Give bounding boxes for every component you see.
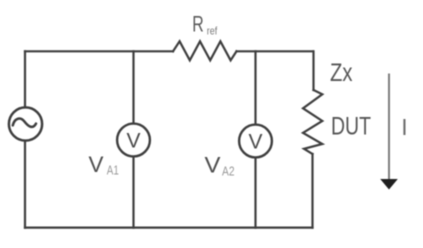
- svg-text:A1: A1: [107, 164, 119, 178]
- resistor R1 Rref zigzag: [173, 41, 237, 60]
- voltmeter M2 circle: [239, 125, 272, 158]
- current arrow I line: [388, 74, 390, 181]
- wire right vertical lower: [311, 154, 313, 228]
- svg-text:ref: ref: [207, 26, 218, 38]
- svg-text:Zx: Zx: [330, 59, 353, 87]
- wire right vertical upper: [312, 51, 314, 90]
- svg-text:V: V: [89, 152, 104, 177]
- current arrow I head: [380, 179, 398, 190]
- svg-text:DUT: DUT: [331, 112, 371, 140]
- wire branch VA1 lower: [132, 156, 134, 227]
- svg-text:V: V: [205, 153, 221, 178]
- wire left vertical upper: [24, 51, 26, 107]
- wire branch VA2 upper: [254, 51, 256, 124]
- wire branch VA2 lower: [254, 157, 256, 227]
- svg-text:V: V: [126, 130, 140, 153]
- wire left vertical lower: [24, 141, 26, 228]
- wire branch VA1 upper: [132, 51, 134, 123]
- wire top right segment: [237, 50, 313, 52]
- wire bottom: [25, 227, 313, 229]
- svg-text:I: I: [401, 114, 407, 140]
- resistor DUT zigzag: [303, 90, 322, 154]
- svg-text:A2: A2: [222, 164, 235, 178]
- AC source V1 sine: [13, 119, 36, 127]
- svg-text:V: V: [248, 131, 262, 154]
- svg-text:R: R: [192, 12, 204, 37]
- AC source V1 circle: [9, 107, 42, 140]
- voltmeter M1 circle: [117, 124, 150, 157]
- wire top left segment: [25, 50, 173, 52]
